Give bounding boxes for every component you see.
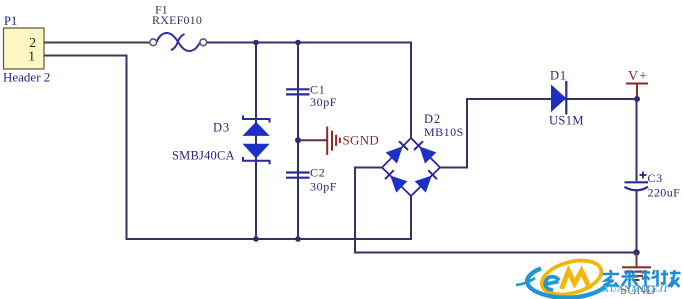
svg-text:Header 2: Header 2 — [3, 70, 50, 85]
bridge rectifier D2 diamond outline — [382, 138, 440, 196]
watermark logo ellipse — [538, 255, 605, 299]
wire V+ node down to C3 — [636, 99, 638, 181]
wire D3 vertical branch — [255, 43, 257, 240]
wire C3 bottom to lower bus — [636, 190, 638, 253]
fuse F1 symbol — [157, 33, 200, 51]
watermark chinese char mi — [622, 270, 639, 287]
junction dot SGND branch — [295, 137, 301, 143]
bridge diode lower-right (points to right corner) — [415, 170, 437, 192]
wire C1 C2 vertical branch — [297, 43, 299, 240]
svg-text:220uF: 220uF — [648, 186, 681, 200]
wire P1 pin1 horizontal — [44, 55, 128, 57]
svg-text:RXEF010: RXEF010 — [152, 13, 202, 27]
svg-text:US1M: US1M — [549, 114, 584, 128]
svg-text:D1: D1 — [550, 69, 567, 83]
capacitor C2 symbol — [286, 173, 310, 178]
power port SGND symbol bars — [327, 127, 340, 155]
wire bridge left corner to lower bus — [355, 168, 637, 253]
fuse F1 left terminal circle — [150, 39, 157, 46]
wire P1 pin2 to fuse F1 — [44, 42, 150, 44]
watermark blue swoosh tail — [516, 278, 535, 285]
svg-text:SGND: SGND — [343, 133, 380, 148]
TVS diode D3 symbol — [243, 116, 270, 165]
junction dot bottom net at D3 — [253, 236, 259, 242]
wire to SGND power port — [298, 139, 327, 141]
svg-text:XUANMIKEJI: XUANMIKEJI — [602, 285, 668, 295]
watermark blue swoosh — [527, 269, 605, 298]
watermark chinese char xuan — [603, 270, 620, 287]
junction dot C1 top — [295, 40, 301, 46]
junction dot bottom net at C2 — [295, 236, 301, 242]
watermark blue e glyph — [545, 277, 559, 290]
svg-text:1: 1 — [28, 49, 35, 64]
svg-text:D2: D2 — [424, 112, 441, 126]
power ground SGND under C3: bars — [622, 267, 651, 280]
watermark chinese char ji — [661, 270, 681, 287]
svg-text:C3: C3 — [648, 171, 663, 185]
svg-text:30pF: 30pF — [310, 180, 337, 194]
wire bridge right corner to D1 — [440, 99, 637, 168]
svg-text:30pF: 30pF — [310, 95, 337, 109]
svg-text:C2: C2 — [310, 166, 326, 180]
capacitor C1 symbol — [286, 89, 310, 94]
bridge diode upper-right (points to top corner) — [414, 141, 436, 163]
wire bridge top vertical — [410, 42, 412, 139]
junction dot V+ node — [634, 96, 640, 102]
wire bottom net horizontal — [126, 238, 413, 240]
bridge diode lower-left (points to left corner) — [385, 170, 407, 192]
connector P1 body — [4, 28, 45, 69]
svg-text:V+: V+ — [628, 69, 648, 84]
wire P1 pin1 vertical down — [126, 55, 128, 241]
power port V+ bar symbol — [626, 84, 648, 99]
diode D1 symbol — [552, 81, 567, 115]
capacitor C3 plus sign — [640, 172, 647, 179]
power ground SGND under C3: stem — [636, 253, 638, 267]
svg-text:MB10S: MB10S — [424, 125, 464, 139]
fuse F1 right terminal circle — [200, 39, 207, 46]
wire fuse F1 to node A — [207, 42, 413, 44]
svg-text:P1: P1 — [4, 14, 17, 28]
junction dot lower bus at C3 — [633, 249, 639, 255]
junction dot node A (D3 top) — [253, 40, 259, 46]
svg-text:SMBJ40CA: SMBJ40CA — [172, 149, 235, 163]
wire bridge bottom vertical — [410, 196, 412, 241]
watermark yellow M glyph — [562, 271, 591, 289]
watermark chinese char ke — [642, 270, 659, 287]
svg-text:D3: D3 — [213, 121, 230, 135]
capacitor C3 polarized symbol — [625, 182, 649, 190]
bridge diode upper-left (points to top corner) — [386, 141, 408, 163]
